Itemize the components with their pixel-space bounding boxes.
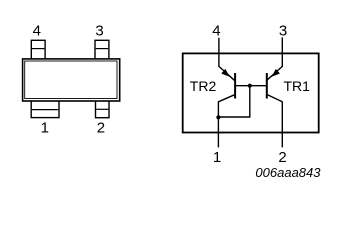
svg-text:006aaa843: 006aaa843 <box>255 165 321 180</box>
TR1 collector diagonal <box>268 95 283 102</box>
svg-text:1: 1 <box>213 149 221 166</box>
svg-text:3: 3 <box>95 22 103 39</box>
TR2 base bar <box>234 73 236 99</box>
TR2 emitter diagonal <box>219 66 235 80</box>
pin 1 wire (collector TR2) <box>217 101 219 147</box>
base-to-collector tie wire (horizontal) <box>218 116 250 118</box>
base-to-collector tie wire (vertical) <box>249 86 251 117</box>
package body outer outline <box>23 59 120 101</box>
pin 4 lead <box>31 40 45 59</box>
svg-text:3: 3 <box>279 22 287 39</box>
svg-text:TR2: TR2 <box>190 78 217 94</box>
pin 2 lead <box>96 100 110 118</box>
common base wire <box>235 85 267 87</box>
pin 1 lead <box>31 100 59 118</box>
TR2 collector diagonal <box>218 95 234 102</box>
package body inner outline <box>25 61 117 99</box>
pin 3 wire (emitter TR1) <box>281 37 283 67</box>
pin 4 wire (emitter TR2) <box>218 38 220 67</box>
pin 3 lead <box>95 40 109 59</box>
TR1 base bar <box>266 73 268 99</box>
TR1 emitter diagonal <box>267 66 283 80</box>
svg-text:2: 2 <box>278 149 286 166</box>
svg-text:4: 4 <box>33 22 41 39</box>
pin 2 wire (collector TR1) <box>281 101 283 147</box>
base junction dot <box>248 84 252 88</box>
collector junction dot <box>216 115 220 119</box>
svg-text:4: 4 <box>212 22 220 39</box>
svg-text:2: 2 <box>97 120 105 137</box>
TR2 emitter arrow <box>222 70 228 76</box>
schematic box <box>183 53 319 132</box>
svg-text:TR1: TR1 <box>284 78 311 94</box>
svg-text:1: 1 <box>41 120 49 137</box>
TR1 emitter arrow <box>273 70 279 76</box>
